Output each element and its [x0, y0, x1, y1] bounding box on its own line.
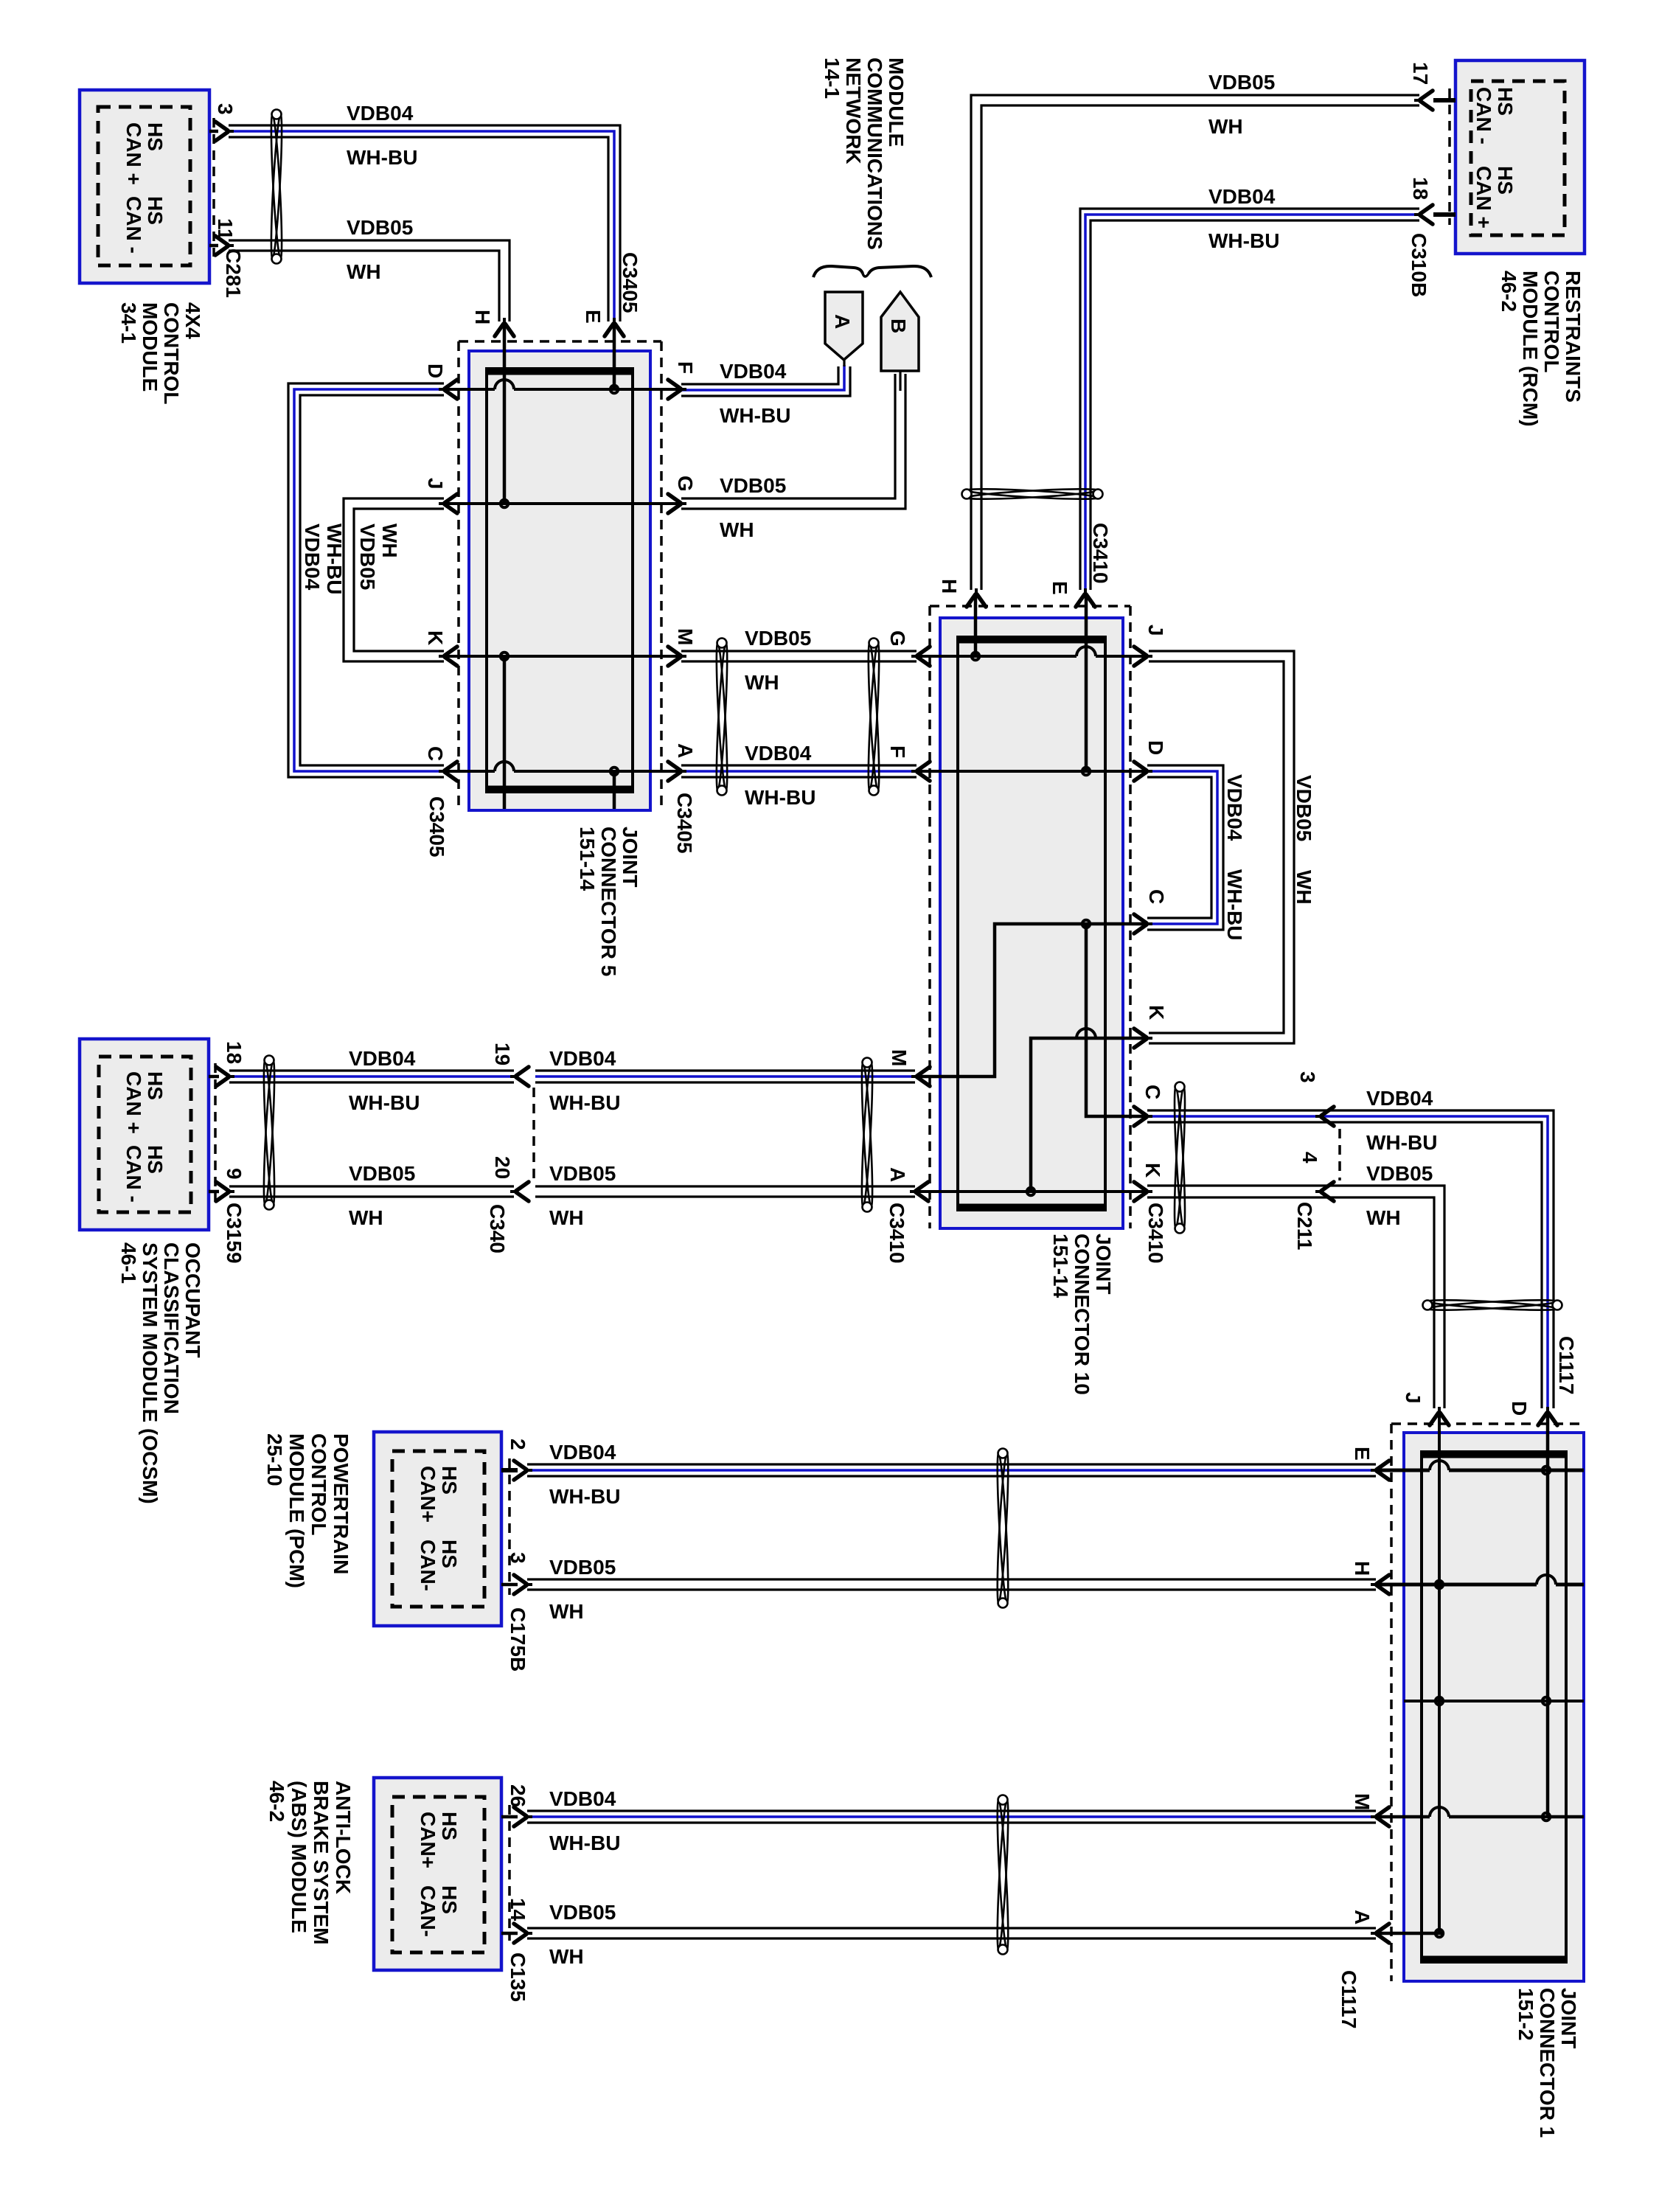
svg-text:C3159: C3159 [223, 1203, 246, 1264]
svg-text:CONTROL: CONTROL [160, 302, 183, 404]
svg-text:VDB04: VDB04 [549, 1787, 616, 1810]
svg-text:D: D [1144, 740, 1167, 755]
svg-text:C3410: C3410 [886, 1203, 908, 1264]
svg-text:HS: HS [438, 1812, 461, 1840]
svg-text:F: F [674, 361, 697, 374]
svg-text:CAN-: CAN- [417, 1540, 439, 1591]
svg-text:WH: WH [745, 671, 779, 694]
svg-text:COMMUNICATIONS: COMMUNICATIONS [863, 58, 886, 250]
svg-text:J: J [1144, 625, 1167, 636]
svg-text:CAN +: CAN + [122, 1071, 145, 1134]
svg-text:CONTROL: CONTROL [307, 1433, 330, 1535]
svg-text:C340: C340 [486, 1204, 509, 1253]
svg-text:C: C [1145, 889, 1168, 904]
svg-text:WH-BU: WH-BU [549, 1485, 620, 1508]
svg-text:WH: WH [1366, 1206, 1401, 1229]
svg-text:17: 17 [1409, 62, 1432, 85]
svg-text:VDB04: VDB04 [745, 742, 812, 765]
svg-text:18: 18 [1409, 177, 1432, 200]
svg-text:H: H [938, 579, 961, 594]
svg-text:14: 14 [507, 1898, 529, 1921]
svg-text:CAN-: CAN- [417, 1885, 439, 1937]
svg-text:H: H [1351, 1561, 1374, 1576]
svg-text:K: K [1145, 1005, 1168, 1020]
svg-text:34-1: 34-1 [117, 302, 140, 344]
svg-text:WH-BU: WH-BU [349, 1091, 420, 1114]
svg-text:G: G [886, 630, 909, 647]
svg-text:C135: C135 [507, 1952, 529, 2002]
svg-text:CAN+: CAN+ [417, 1812, 439, 1868]
svg-text:18: 18 [223, 1041, 246, 1064]
svg-text:CLASSIFICATION: CLASSIFICATION [160, 1242, 183, 1414]
svg-text:CAN +: CAN + [122, 122, 145, 185]
svg-text:WH-BU: WH-BU [323, 524, 346, 594]
svg-text:VDB05: VDB05 [1293, 775, 1315, 841]
svg-text:HS: HS [1494, 166, 1517, 195]
svg-text:E: E [1351, 1447, 1374, 1461]
svg-text:VDB04: VDB04 [301, 524, 324, 591]
svg-text:VDB04: VDB04 [549, 1441, 616, 1464]
svg-text:VDB05: VDB05 [347, 216, 413, 239]
svg-text:HS: HS [144, 122, 167, 151]
svg-text:VDB04: VDB04 [1223, 774, 1246, 841]
svg-text:VDB05: VDB05 [745, 627, 811, 650]
svg-text:C3410: C3410 [1144, 1203, 1167, 1264]
svg-text:VDB04: VDB04 [1208, 185, 1276, 208]
svg-text:BRAKE SYSTEM: BRAKE SYSTEM [310, 1781, 333, 1944]
svg-text:VDB04: VDB04 [349, 1047, 416, 1070]
svg-text:F: F [886, 745, 909, 758]
svg-text:C: C [424, 746, 447, 761]
svg-text:CONNECTOR 5: CONNECTOR 5 [597, 827, 620, 976]
svg-text:NETWORK: NETWORK [842, 58, 865, 164]
svg-text:4: 4 [1298, 1152, 1321, 1164]
svg-text:A: A [1351, 1910, 1374, 1924]
svg-text:OCCUPANT: OCCUPANT [181, 1242, 204, 1358]
svg-text:151-14: 151-14 [576, 827, 599, 891]
svg-text:VDB05: VDB05 [349, 1162, 415, 1185]
svg-text:CONNECTOR 10: CONNECTOR 10 [1071, 1234, 1093, 1395]
svg-text:VDB04: VDB04 [720, 360, 787, 383]
svg-text:J: J [1402, 1392, 1425, 1404]
svg-text:A: A [831, 314, 854, 329]
svg-text:3: 3 [507, 1552, 529, 1564]
svg-text:CAN -: CAN - [122, 1145, 145, 1203]
svg-text:46-1: 46-1 [117, 1242, 140, 1284]
svg-text:HS: HS [438, 1885, 461, 1914]
svg-text:WH: WH [349, 1206, 383, 1229]
svg-text:E: E [582, 310, 605, 324]
svg-text:46-2: 46-2 [265, 1781, 288, 1822]
svg-text:C1117: C1117 [1338, 1970, 1360, 2028]
svg-text:E: E [1048, 581, 1071, 595]
svg-text:VDB05: VDB05 [1366, 1162, 1433, 1185]
svg-text:VDB05: VDB05 [1208, 71, 1275, 94]
svg-text:WH: WH [1208, 115, 1243, 138]
svg-text:3: 3 [1296, 1071, 1319, 1083]
svg-text:WH: WH [549, 1945, 584, 1968]
svg-text:C: C [1141, 1085, 1164, 1099]
svg-text:WH-BU: WH-BU [347, 146, 417, 169]
svg-text:C310B: C310B [1408, 233, 1430, 297]
svg-text:HS: HS [1494, 87, 1517, 116]
svg-text:VDB04: VDB04 [1366, 1087, 1433, 1110]
svg-text:25-10: 25-10 [263, 1433, 286, 1486]
svg-text:A: A [886, 1167, 909, 1182]
svg-text:11: 11 [214, 218, 237, 240]
svg-text:3: 3 [214, 103, 237, 115]
svg-text:C3410: C3410 [1089, 523, 1112, 584]
svg-text:J: J [424, 478, 447, 490]
svg-text:(ABS) MODULE: (ABS) MODULE [288, 1781, 310, 1933]
svg-text:VDB04: VDB04 [347, 102, 414, 125]
svg-text:M: M [674, 628, 697, 645]
svg-text:WH: WH [378, 524, 401, 558]
svg-text:M: M [1351, 1793, 1374, 1810]
svg-text:MODULE (RCM): MODULE (RCM) [1519, 271, 1542, 427]
svg-text:M: M [888, 1049, 911, 1066]
svg-text:CAN -: CAN - [122, 196, 145, 254]
svg-text:HS: HS [144, 1071, 167, 1100]
svg-text:H: H [471, 310, 494, 324]
svg-text:WH-BU: WH-BU [549, 1091, 620, 1114]
svg-text:46-2: 46-2 [1498, 271, 1520, 312]
svg-text:WH-BU: WH-BU [1208, 229, 1279, 252]
svg-text:B: B [887, 319, 910, 333]
svg-text:K: K [1141, 1163, 1164, 1178]
svg-text:A: A [674, 743, 697, 758]
svg-text:CAN -: CAN - [1472, 87, 1495, 145]
svg-text:RESTRAINTS: RESTRAINTS [1562, 271, 1585, 403]
svg-text:VDB04: VDB04 [549, 1047, 616, 1070]
svg-text:MODULE: MODULE [885, 58, 908, 147]
svg-text:D: D [424, 364, 447, 378]
svg-text:CONTROL: CONTROL [1540, 271, 1563, 372]
svg-text:C1117: C1117 [1555, 1336, 1578, 1394]
svg-text:MODULE (PCM): MODULE (PCM) [285, 1433, 308, 1588]
svg-text:JOINT: JOINT [619, 827, 641, 887]
svg-text:CAN +: CAN + [1472, 166, 1495, 229]
svg-text:JOINT: JOINT [1092, 1234, 1115, 1294]
svg-text:WH-BU: WH-BU [720, 404, 790, 427]
svg-text:VDB05: VDB05 [549, 1556, 616, 1579]
svg-text:C3405: C3405 [673, 793, 696, 854]
svg-text:WH-BU: WH-BU [1366, 1131, 1437, 1154]
svg-text:WH: WH [347, 260, 381, 283]
svg-text:POWERTRAIN: POWERTRAIN [330, 1433, 352, 1574]
svg-text:VDB05: VDB05 [720, 474, 786, 497]
svg-text:151-14: 151-14 [1049, 1234, 1072, 1298]
svg-text:CAN+: CAN+ [417, 1466, 439, 1523]
svg-text:14-1: 14-1 [821, 58, 844, 99]
svg-text:HS: HS [144, 1145, 167, 1174]
svg-text:SYSTEM MODULE (OCSM): SYSTEM MODULE (OCSM) [139, 1242, 161, 1504]
svg-text:WH-BU: WH-BU [549, 1832, 620, 1854]
svg-text:WH: WH [720, 518, 754, 541]
svg-text:VDB05: VDB05 [549, 1162, 616, 1185]
svg-text:151-2: 151-2 [1514, 1988, 1537, 2041]
svg-text:ANTI-LOCK: ANTI-LOCK [332, 1781, 355, 1894]
svg-text:20: 20 [491, 1156, 514, 1179]
svg-text:C211: C211 [1293, 1202, 1316, 1250]
svg-text:26: 26 [507, 1784, 529, 1807]
svg-text:CONNECTOR 1: CONNECTOR 1 [1536, 1988, 1559, 2138]
svg-text:19: 19 [491, 1043, 514, 1065]
svg-text:HS: HS [144, 196, 167, 225]
svg-text:C3405: C3405 [619, 252, 641, 313]
svg-text:WH-BU: WH-BU [1223, 869, 1246, 940]
svg-text:D: D [1508, 1401, 1531, 1416]
svg-text:VDB05: VDB05 [549, 1901, 616, 1924]
svg-text:C175B: C175B [507, 1607, 529, 1672]
svg-text:C281: C281 [222, 248, 245, 298]
svg-text:HS: HS [438, 1466, 461, 1495]
svg-text:JOINT: JOINT [1557, 1988, 1580, 2048]
svg-text:4X4: 4X4 [181, 302, 204, 339]
svg-text:HS: HS [438, 1540, 461, 1568]
svg-text:WH: WH [549, 1206, 584, 1229]
svg-text:G: G [674, 476, 697, 492]
svg-text:WH: WH [549, 1600, 584, 1623]
svg-text:9: 9 [223, 1168, 246, 1180]
svg-text:MODULE: MODULE [139, 302, 161, 392]
svg-text:WH-BU: WH-BU [745, 786, 815, 809]
svg-text:C3405: C3405 [425, 796, 448, 858]
svg-text:2: 2 [507, 1439, 529, 1450]
svg-text:WH: WH [1293, 870, 1315, 905]
svg-text:VDB05: VDB05 [356, 524, 379, 590]
svg-text:K: K [424, 630, 447, 645]
